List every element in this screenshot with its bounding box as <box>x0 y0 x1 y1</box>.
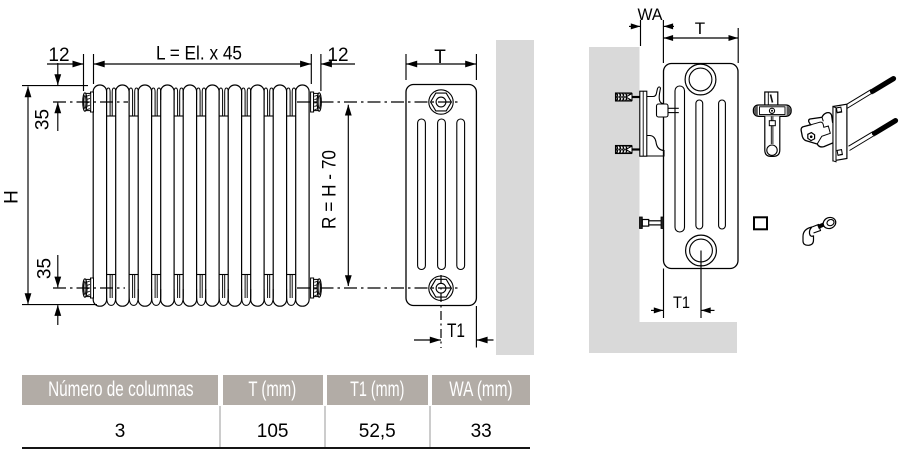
dimension WA <box>629 5 674 63</box>
accessory blind plug (square) <box>754 217 767 229</box>
table value 3 <box>22 409 218 447</box>
accessory adjustable bracket <box>753 92 791 156</box>
wall bracket plate <box>640 87 664 156</box>
wire center line bottom <box>53 287 458 289</box>
wire center line top <box>53 101 458 103</box>
table value 105 <box>223 409 323 447</box>
svg-text:T: T <box>434 47 446 68</box>
svg-text:12: 12 <box>48 45 69 66</box>
accessory wall plate <box>833 104 847 162</box>
table value 52,5 <box>327 409 428 447</box>
table column separator 2 <box>324 406 326 447</box>
accessory screw 1 <box>847 79 894 109</box>
wall plug bottom <box>616 146 640 154</box>
fitting bung top-left <box>83 92 94 112</box>
table bottom rule <box>22 447 530 449</box>
svg-text:R = H - 70: R = H - 70 <box>320 150 341 229</box>
dimension T (installed view) <box>663 19 738 63</box>
accessory screw 2 <box>849 121 896 151</box>
wall band (right, floor bar) <box>589 322 737 353</box>
dimension H <box>2 86 98 305</box>
svg-text:T1: T1 <box>447 321 465 342</box>
wall band (right, L-shape vertical) <box>589 47 640 353</box>
accessory pipe clip with bolt <box>803 216 837 246</box>
table header cell: T (mm) <box>223 375 323 405</box>
fitting bung bottom-right <box>311 278 322 298</box>
svg-text:T: T <box>695 19 705 38</box>
hex bushing top (side view) <box>429 90 453 114</box>
dimension 35 top <box>33 63 62 131</box>
installed view column slot 3 <box>719 100 726 229</box>
dimension T1 (side view) <box>414 275 494 348</box>
table value 33 <box>432 409 531 447</box>
svg-text:12: 12 <box>327 45 348 66</box>
table column separator 1 <box>219 406 221 447</box>
svg-text:35: 35 <box>35 258 56 279</box>
svg-text:WA: WA <box>638 5 664 24</box>
dimension 12 left <box>47 45 94 91</box>
radiator side view body <box>406 85 476 306</box>
bracket clamp block <box>657 104 679 117</box>
dimension 12 right <box>311 45 355 91</box>
hex bushing bottom (side view) <box>429 276 453 300</box>
table header cell: T1 (mm) <box>327 375 428 405</box>
fitting bung top-right <box>311 92 322 112</box>
installed view column slot 2 <box>696 100 703 229</box>
dimension T1 (installed view) <box>651 251 715 319</box>
side view column slots <box>418 119 465 270</box>
svg-text:T1: T1 <box>673 293 690 312</box>
wall band (middle) <box>496 40 534 355</box>
installed view column tube 1 <box>675 86 685 232</box>
table header cell: Numero de columnas <box>22 375 218 405</box>
radiator front view (10 columns) <box>93 85 309 306</box>
svg-text:H: H <box>2 190 23 204</box>
table column separator 3 <box>429 406 431 447</box>
dimension 35 bottom <box>35 255 62 325</box>
accessory toggle clamp <box>801 113 836 147</box>
fitting bung bottom-left <box>83 278 94 298</box>
installed view bottom tapping circle <box>686 235 717 266</box>
bottom stay (wall to radiator) <box>640 217 664 229</box>
table header cell: WA (mm) <box>432 375 531 405</box>
wall plug top <box>616 93 640 101</box>
svg-text:L = El. x 45: L = El. x 45 <box>156 44 242 65</box>
svg-text:35: 35 <box>33 109 54 130</box>
dimension T (side view) <box>406 47 476 80</box>
radiator installed side view body <box>664 64 739 269</box>
dimension R = H - 70 <box>320 105 352 287</box>
installed view top tapping circle <box>685 64 716 95</box>
dimension L = El. x 45 <box>94 44 312 68</box>
